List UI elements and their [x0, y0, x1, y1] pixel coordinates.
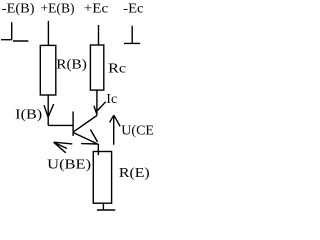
ground (below R(E))	[97, 209, 115, 211]
transistor Q1 emitter stroke with arrowhead	[74, 130, 99, 145]
label R(E)	[119, 166, 150, 181]
node +E(B) label	[41, 2, 75, 17]
label U(CE)	[121, 124, 159, 139]
label Ic	[106, 92, 117, 107]
transistor Q1 collector stroke	[74, 116, 97, 132]
label U(BE)	[47, 157, 91, 172]
resistor R(B)	[40, 45, 56, 95]
svg-text:R(B): R(B)	[56, 58, 87, 73]
node -Ec label	[123, 2, 143, 17]
svg-text:U(CE): U(CE)	[121, 124, 153, 139]
svg-text:R(E): R(E)	[119, 166, 150, 181]
label I(B)	[15, 107, 42, 122]
label Rc	[108, 62, 126, 77]
resistor Rc	[90, 45, 103, 90]
ground (below -E(B))	[1, 22, 28, 41]
label R(B)	[56, 58, 87, 73]
wire +E(B) to R(B)	[47, 21, 49, 46]
svg-text:+E(B): +E(B)	[41, 2, 75, 17]
wire emitter to R(E)	[97, 144, 99, 155]
transistor Q1 base bar	[72, 112, 74, 136]
node +Ec label	[84, 2, 108, 17]
wire Rc to collector, with current arrow Ic	[94, 90, 106, 115]
svg-text:+Ec: +Ec	[84, 2, 108, 17]
voltage arrow U(BE)	[54, 142, 73, 153]
svg-text:Rc: Rc	[108, 62, 126, 77]
svg-text:-E(B): -E(B)	[2, 2, 35, 17]
resistor R(E)	[93, 152, 111, 204]
voltage arrow U(CE)	[110, 115, 121, 145]
svg-text:U(BE): U(BE)	[47, 157, 91, 172]
wire R(E) to ground	[102, 203, 104, 209]
wire base horizontal	[48, 124, 73, 126]
svg-text:Ic: Ic	[106, 92, 117, 107]
svg-text:-Ec: -Ec	[123, 2, 143, 17]
wire +Ec to Rc	[98, 25, 100, 45]
node -E(B) label	[2, 2, 35, 17]
wire R(B) to base corner, with current arrow I(B)	[44, 95, 54, 125]
svg-text:I(B): I(B)	[15, 107, 42, 122]
ground (below -Ec)	[124, 26, 140, 44]
